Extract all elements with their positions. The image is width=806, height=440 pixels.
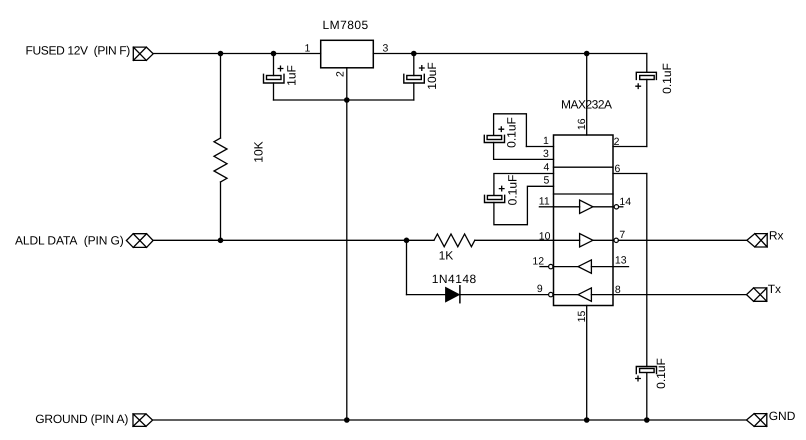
wire 1K to pin 10 — [475, 239, 554, 241]
wire 10K top lead — [220, 54, 222, 139]
svg-text:0.1uF: 0.1uF — [660, 63, 674, 94]
junction top of 10uF — [411, 51, 417, 57]
wire C1 bottom to pin 3 — [494, 143, 554, 160]
junction top of 10K — [218, 51, 224, 57]
capacitor 10uF — [404, 74, 425, 83]
junction top of 1uF — [271, 51, 277, 57]
svg-text:10K: 10K — [252, 141, 266, 162]
svg-text:0.1uF: 0.1uF — [506, 175, 520, 206]
junction pin16 rail — [584, 51, 590, 57]
svg-text:GND: GND — [769, 409, 796, 423]
wire diode cathode to pin 9 — [460, 294, 549, 296]
svg-text:2: 2 — [335, 71, 347, 77]
bubble pin 14 — [614, 205, 618, 209]
pin 2 stub — [613, 146, 647, 148]
svg-text:Rx: Rx — [769, 229, 784, 243]
resistor 10K — [214, 138, 227, 182]
wire receiver R2 in — [553, 266, 578, 268]
svg-text:1: 1 — [305, 43, 311, 55]
connector GROUND (PIN A) — [133, 414, 153, 427]
bubble pin 9 — [549, 292, 553, 296]
wire T1 out — [593, 206, 614, 208]
capacitor 1uF — [264, 74, 285, 83]
wire pin 6 down to C6 — [646, 174, 648, 367]
capacitor C3 0.1uF top right — [636, 72, 656, 79]
wire 10uF top lead — [413, 54, 415, 76]
wire 10uF bottom lead — [413, 83, 415, 100]
svg-text:ALDL DATA (PIN G): ALDL DATA (PIN G) — [15, 233, 124, 247]
plus sign 10uF — [420, 66, 425, 71]
wire C1 top loop — [494, 114, 527, 147]
svg-text:14: 14 — [619, 196, 631, 208]
wire 1uF top lead — [273, 54, 275, 76]
plus sign 1uF — [278, 66, 283, 71]
wire R2 to pin 13 — [591, 266, 613, 268]
wire LM7805 pin2 down to ground rail — [346, 68, 348, 420]
svg-text:GROUND (PIN A): GROUND (PIN A) — [35, 412, 128, 426]
connector GND — [747, 414, 767, 427]
svg-text:1uF: 1uF — [284, 65, 298, 86]
svg-text:16: 16 — [576, 118, 588, 130]
wire C6 bottom to ground rail — [646, 374, 648, 421]
pin 12 stub — [540, 266, 549, 268]
divider charge pump 2 — [554, 193, 614, 195]
svg-text:15: 15 — [576, 311, 588, 323]
svg-text:3: 3 — [543, 148, 549, 160]
svg-text:9: 9 — [537, 283, 543, 295]
svg-text:1K: 1K — [439, 249, 454, 263]
wire pin 10 into chip — [554, 239, 580, 241]
svg-text:Tx: Tx — [768, 282, 781, 296]
wire pin 8 to Tx — [613, 294, 747, 296]
svg-text:0.1uF: 0.1uF — [505, 117, 519, 148]
svg-text:11: 11 — [539, 196, 550, 208]
connector Tx — [747, 288, 767, 301]
wire top rail right — [373, 53, 647, 55]
pin 6 stub — [613, 173, 647, 175]
diode 1N4148 — [446, 286, 460, 303]
IC U2 MAX232A — [554, 135, 614, 306]
svg-text:10uF: 10uF — [425, 62, 439, 89]
wire R1 to pin 8 — [591, 294, 613, 296]
svg-text:5: 5 — [544, 175, 550, 187]
wire pin 11 to driver T1 — [554, 206, 580, 208]
wire C3 top lead from rail — [646, 54, 648, 73]
wire receiver R1 in — [553, 294, 578, 296]
wire pin 15 to ground rail — [586, 306, 588, 421]
svg-text:4: 4 — [544, 162, 550, 174]
wire ground rail — [153, 419, 747, 421]
pin 1 stub — [526, 146, 553, 148]
junction 10K bottom — [218, 238, 224, 244]
capacitor C1 0.1uF — [484, 135, 504, 142]
svg-text:12: 12 — [532, 256, 544, 268]
junction LM7805 pin2 ground — [344, 417, 350, 423]
svg-text:1: 1 — [543, 135, 549, 147]
svg-text:FUSED 12V (PIN F): FUSED 12V (PIN F) — [26, 44, 131, 58]
wire T2 out — [593, 239, 614, 241]
plus sign C3 — [636, 84, 641, 89]
svg-text:1N4148: 1N4148 — [432, 272, 477, 286]
svg-text:7: 7 — [619, 229, 625, 241]
receiver R1 — [578, 288, 591, 301]
driver T1 — [580, 200, 593, 213]
svg-text:10: 10 — [539, 230, 551, 242]
junction diode branch — [404, 238, 410, 244]
pin 4 line — [494, 174, 554, 196]
connector Rx — [747, 234, 767, 247]
driver T2 — [580, 234, 593, 247]
junction C6 ground — [644, 417, 650, 423]
capacitor C6 0.1uF bottom — [636, 367, 656, 374]
capacitor C2 0.1uF — [485, 195, 505, 202]
receiver R2 — [578, 260, 591, 273]
pin 13 stub — [613, 266, 629, 268]
plus sign C1 — [499, 127, 504, 132]
wire diode branch down — [406, 240, 408, 294]
svg-text:2: 2 — [614, 136, 620, 148]
pin 14 stub — [619, 206, 623, 208]
junction pin 15 ground — [584, 417, 590, 423]
plus sign C6 — [636, 376, 641, 381]
svg-text:13: 13 — [615, 255, 627, 267]
wire 1uF bottom lead — [273, 83, 275, 100]
bubble pin 12 — [549, 264, 553, 268]
wire pin 7 to Rx — [618, 239, 747, 241]
divider charge pump 1 — [554, 166, 614, 168]
plus sign C2 — [499, 186, 504, 191]
svg-text:6: 6 — [615, 163, 621, 175]
connector ALDL DATA (PIN G) — [126, 234, 153, 248]
junction pin2 ground — [344, 97, 350, 103]
regulator U1 LM7805 — [321, 40, 374, 68]
pin 11 stub — [539, 206, 553, 208]
wire diode anode lead — [407, 294, 446, 296]
wire top rail left — [153, 53, 321, 55]
wire 10K bottom lead — [220, 182, 222, 240]
wire cap bottoms to ground line — [274, 99, 414, 101]
wire C3 bottom to pin 2 — [646, 80, 648, 147]
bubble pin 7 — [614, 238, 618, 242]
connector FUSED 12V (PIN F) — [133, 47, 153, 60]
svg-text:LM7805: LM7805 — [323, 18, 369, 32]
wire pin 16 to rail — [586, 54, 588, 136]
resistor 1K — [434, 234, 475, 247]
svg-text:0.1uF: 0.1uF — [654, 358, 668, 389]
wire C2 bottom to pin 5 — [494, 186, 554, 224]
wire ALDL data line — [153, 239, 434, 241]
svg-text:3: 3 — [383, 43, 389, 55]
